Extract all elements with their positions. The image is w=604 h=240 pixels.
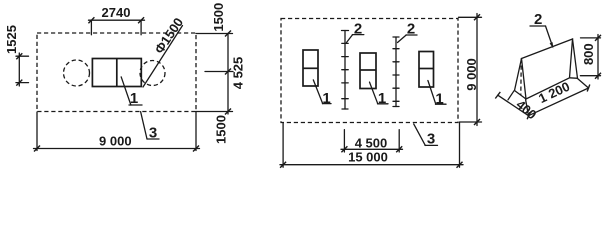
label 3 leader (middle plan) [414, 124, 438, 145]
svg-text:2: 2 [534, 11, 542, 28]
block 1 divider [116, 59, 118, 87]
label 2b leader [398, 35, 418, 43]
dashed outline 3 (middle plan) [281, 19, 458, 123]
label 1a leader [313, 80, 331, 104]
dimension 9 000 line [34, 112, 200, 152]
dimension 2740 line [88, 17, 144, 35]
svg-text:9 000: 9 000 [464, 58, 479, 91]
marker left face hidden median [520, 59, 523, 96]
dimension 4 500 line [341, 130, 403, 153]
svg-text:4 500: 4 500 [355, 136, 388, 151]
dashed outline 3 (left plan) [37, 33, 196, 112]
marker right end face [570, 39, 578, 78]
svg-text:1: 1 [378, 90, 386, 107]
right dimension chain line [196, 31, 233, 115]
label 2a leader [347, 35, 364, 43]
block 1b [360, 53, 376, 89]
marker left end face [515, 59, 527, 100]
label 1 leader (left plan) [121, 77, 142, 105]
dashed circle right [140, 61, 165, 86]
dimension 15 000 line [280, 123, 463, 168]
svg-text:1525: 1525 [4, 25, 19, 54]
block 1 (solid rectangle) [92, 59, 141, 87]
block 1a [303, 50, 318, 86]
svg-text:1: 1 [130, 90, 138, 107]
svg-text:2: 2 [407, 21, 415, 38]
label 3 leader (left plan) [141, 112, 159, 139]
leader line F1500 [143, 26, 183, 88]
svg-text:1500: 1500 [211, 3, 226, 32]
staff line 2a [342, 31, 349, 110]
dimension 400 line [495, 91, 528, 116]
svg-text:15 000: 15 000 [348, 150, 388, 165]
svg-text:4 525: 4 525 [231, 57, 246, 90]
svg-text:800: 800 [581, 43, 596, 65]
dashed circle left [64, 60, 90, 86]
svg-text:3: 3 [427, 131, 435, 148]
svg-text:2740: 2740 [102, 5, 131, 20]
dimension 800 line [580, 35, 601, 80]
dimension 1525 line [16, 53, 29, 86]
label 1c leader [428, 81, 446, 105]
marker front face [522, 39, 573, 99]
dimension 9 000 line (middle plan) [459, 14, 482, 126]
dimension 1 200 line [526, 79, 590, 120]
staff line 2b [393, 37, 399, 107]
block 1c [419, 52, 434, 88]
svg-text:1: 1 [322, 90, 330, 107]
label 1b leader [370, 82, 389, 104]
svg-text:2: 2 [354, 21, 362, 38]
svg-text:1: 1 [435, 90, 443, 107]
svg-text:1500: 1500 [214, 115, 229, 144]
svg-text:9 000: 9 000 [99, 133, 132, 148]
label 2 leader (marker) [530, 26, 553, 49]
svg-text:3: 3 [149, 125, 157, 142]
